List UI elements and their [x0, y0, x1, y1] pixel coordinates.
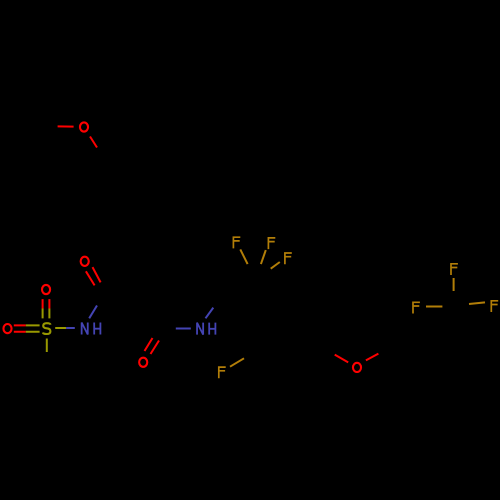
wire S-CH3b carbon half — [46, 352, 48, 366]
atom N2 lactam N — [197, 323, 203, 335]
wire Ar4-O carbon half — [323, 346, 335, 355]
wire O-A1 carbon half — [97, 148, 104, 159]
wire pyridone ring — [143, 261, 220, 328]
atom N2 lactam H — [209, 323, 215, 335]
wire C6-CF3a — [221, 278, 256, 296]
atom O8 lactam carbonyl — [139, 358, 147, 367]
bond C2-N2 blue half — [176, 328, 191, 330]
bond S=O3 left double: red halves — [14, 325, 26, 331]
bond CH3-O1 red half — [58, 125, 74, 127]
bond NH1-Cam blue half — [89, 306, 97, 319]
bond S-NH1 olive half — [55, 327, 66, 329]
atom F6 — [413, 302, 420, 313]
atom N1 sulfonamide H — [94, 323, 100, 335]
wire Ar2-F carbon half — [244, 351, 258, 359]
atom S1 sulfonyl — [43, 323, 51, 334]
bond Cam=O2 double red halves — [86, 267, 101, 285]
bond S=O4 top double: red halves — [43, 299, 50, 308]
bond CF3a-F1 golden half — [240, 249, 247, 264]
bond CF3a-F3 golden half — [271, 262, 280, 269]
wire C6-Ar1 — [221, 296, 255, 313]
atom F5 — [451, 264, 458, 275]
wire C3-Cam — [105, 293, 143, 295]
wire CH3-O carbon half — [42, 125, 58, 127]
wire fluorophenyl ring B — [254, 292, 322, 368]
atom O1 methoxy — [80, 122, 88, 131]
atom O3 sulfonyl left — [3, 324, 11, 333]
bond C2=O8 double red halves — [145, 338, 160, 354]
bond S=O3 left double: olive halves — [26, 325, 40, 331]
atom O4 sulfonyl top — [42, 285, 50, 294]
atom F4 aryl fluoride — [219, 367, 226, 378]
atom F7 — [491, 301, 498, 312]
wire O-CH2 carbon half — [378, 347, 391, 354]
bond CF3b-F7 golden half — [469, 302, 485, 304]
bond O1-A1 red half — [90, 137, 97, 148]
bond CF3b-F5 golden half — [453, 278, 455, 291]
atom F2 — [268, 238, 275, 249]
wire CH2b-CF3b — [423, 305, 455, 326]
bond N2-C6 blue half — [206, 308, 214, 319]
wire A4-C4 — [143, 224, 165, 261]
bond S=O4 top double: olive halves — [43, 309, 50, 319]
bond S-CH3b olive half — [46, 339, 48, 353]
wire CH2-CH2b — [391, 326, 423, 347]
bond Ar2-F4 golden half — [230, 358, 244, 366]
wire Cam halves — [97, 282, 105, 305]
bond CF3a-F2 golden half — [261, 250, 266, 264]
atom N1 sulfonamide N — [82, 323, 88, 335]
wire methoxyphenyl ring A — [85, 158, 161, 224]
bond O5-CH2 red half — [366, 354, 379, 361]
bond CF3b-F6 golden half — [426, 306, 442, 308]
atom O2 amide carbonyl — [81, 257, 89, 266]
bond Ar4-O5 red half — [335, 355, 349, 363]
wire CF3a halves — [248, 264, 271, 278]
atom F1 — [233, 237, 240, 248]
atom F3 — [285, 253, 292, 264]
atom O5 aryl ether — [353, 363, 361, 372]
bond S-NH1 blue half — [66, 327, 75, 329]
